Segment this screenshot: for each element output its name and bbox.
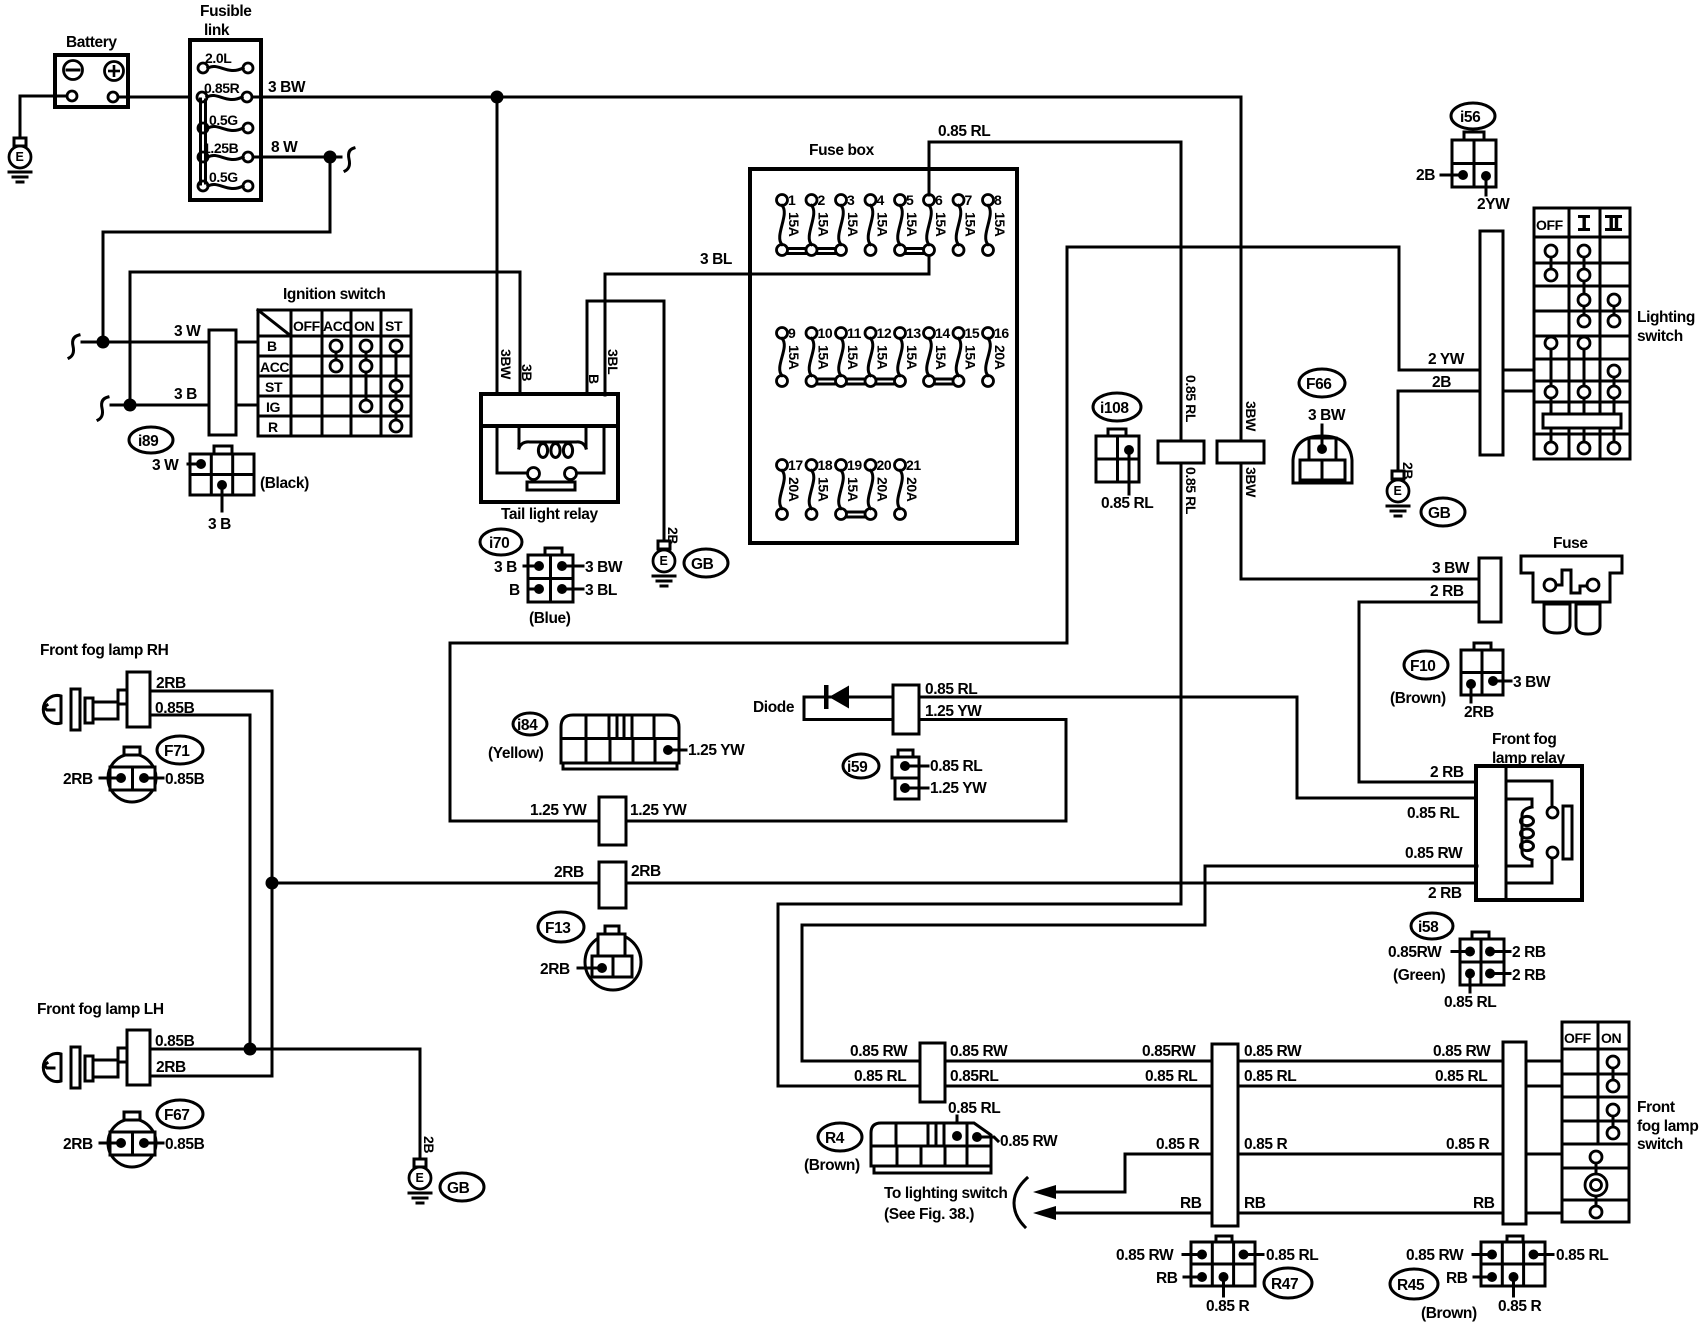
connector F67: [63, 1100, 205, 1167]
svg-text:15A: 15A: [845, 477, 861, 502]
wire 3BL into fuse box: [605, 252, 929, 395]
svg-text:3 B: 3 B: [494, 559, 517, 576]
svg-text:IG: IG: [266, 399, 280, 415]
fuse 3 (15A): [836, 192, 862, 256]
svg-text:2RB: 2RB: [540, 961, 570, 978]
svg-text:15A: 15A: [875, 345, 891, 370]
svg-text:3BW: 3BW: [498, 349, 514, 380]
svg-text:0.85 R: 0.85 R: [1206, 1298, 1249, 1315]
svg-text:2 RB: 2 RB: [1430, 764, 1464, 781]
fuse 11 (15A): [836, 325, 862, 387]
svg-text:Front fog lamp RH: Front fog lamp RH: [40, 642, 169, 659]
svg-text:11: 11: [847, 325, 862, 341]
inline connector (bus 3): [1503, 1042, 1526, 1224]
svg-text:2 RB: 2 RB: [1430, 583, 1464, 600]
svg-text:0.85 RL: 0.85 RL: [1244, 1068, 1296, 1085]
svg-text:Ignition switch: Ignition switch: [283, 286, 386, 303]
svg-text:F66: F66: [1306, 376, 1332, 393]
node 3W junction: [97, 336, 110, 349]
svg-text:14: 14: [935, 325, 950, 341]
svg-text:8 W: 8 W: [271, 139, 298, 156]
svg-text:2B: 2B: [1432, 374, 1451, 391]
svg-text:15A: 15A: [816, 477, 832, 502]
svg-text:R47: R47: [1271, 1276, 1298, 1293]
svg-text:8: 8: [994, 192, 1002, 208]
svg-text:RB: RB: [1473, 1195, 1495, 1212]
svg-text:To lighting switch: To lighting switch: [884, 1185, 1007, 1202]
wire 0.85RL vertical: [1180, 142, 1183, 904]
wire 2B lighting switch to ground: [1398, 391, 1480, 471]
ground E (tail relay): [653, 541, 675, 586]
svg-text:F67: F67: [164, 1107, 190, 1124]
wire 2RB to fuse bar: [1359, 602, 1479, 782]
svg-text:(Brown): (Brown): [1421, 1305, 1477, 1322]
fuse bus 5-6: [900, 247, 929, 250]
ignition switch: [258, 286, 411, 436]
continuation bracket 8W: [345, 148, 354, 171]
svg-text:0.85 RL: 0.85 RL: [1145, 1068, 1197, 1085]
fuse bus 14-15: [929, 378, 959, 381]
fuse 5 (15A): [895, 192, 921, 256]
svg-text:Tail light relay: Tail light relay: [501, 506, 598, 523]
svg-text:R45: R45: [1397, 1277, 1425, 1294]
wire 3BW down to tail relay: [496, 97, 499, 395]
wire 8W to ignition: [103, 157, 330, 344]
svg-text:E: E: [16, 150, 24, 164]
svg-text:3 W: 3 W: [152, 457, 179, 474]
svg-text:0.85 RW: 0.85 RW: [950, 1043, 1008, 1060]
inline connector (diode): [893, 685, 919, 734]
svg-text:6: 6: [935, 192, 943, 208]
svg-text:3 B: 3 B: [208, 516, 231, 533]
fuse bus 1-3: [782, 247, 841, 250]
svg-text:3BW: 3BW: [1243, 401, 1259, 432]
svg-text:2RB: 2RB: [1464, 704, 1494, 721]
svg-text:0.85 RW: 0.85 RW: [1000, 1133, 1058, 1150]
svg-text:12: 12: [877, 325, 892, 341]
svg-text:18: 18: [818, 457, 833, 473]
svg-text:Front fog: Front fog: [1492, 731, 1556, 748]
svg-text:2B: 2B: [1416, 167, 1435, 184]
svg-text:GB: GB: [691, 556, 714, 573]
fuse 17 (20A): [777, 457, 804, 520]
svg-text:(Brown): (Brown): [804, 1157, 860, 1174]
svg-text:0.85 RL: 0.85 RL: [1183, 467, 1199, 515]
fuse bus 19-20: [841, 511, 871, 514]
svg-text:0.85 RL: 0.85 RL: [854, 1068, 906, 1085]
fuse 12 (15A): [865, 325, 892, 387]
ignition switch connector bar: [209, 330, 236, 435]
svg-text:RB: RB: [1180, 1195, 1202, 1212]
svg-text:2: 2: [818, 192, 826, 208]
svg-text:0.85 R: 0.85 R: [1156, 1136, 1199, 1153]
fuse 9 (15A): [777, 325, 803, 387]
svg-text:3 BL: 3 BL: [700, 251, 732, 268]
svg-text:i84: i84: [517, 717, 538, 734]
svg-text:(Green): (Green): [1393, 967, 1446, 984]
wire 1.25YW loop bottom: [450, 820, 1066, 823]
svg-text:2RB: 2RB: [156, 675, 186, 692]
svg-text:15A: 15A: [904, 212, 920, 237]
node 8W junction: [324, 151, 337, 164]
lighting switch: [1534, 208, 1695, 459]
svg-text:i70: i70: [489, 535, 509, 552]
wire 0.85RL relay branch to bus: [778, 904, 1181, 1086]
svg-text:OFF: OFF: [293, 318, 321, 334]
svg-text:3: 3: [847, 192, 855, 208]
svg-text:3 BW: 3 BW: [585, 559, 623, 576]
svg-text:15A: 15A: [933, 212, 949, 237]
svg-text:2 RB: 2 RB: [1512, 967, 1546, 984]
svg-text:Fusible: Fusible: [200, 3, 252, 20]
svg-text:0.85 RL: 0.85 RL: [1556, 1247, 1608, 1264]
svg-text:2 RB: 2 RB: [1512, 944, 1546, 961]
svg-text:2RB: 2RB: [554, 864, 584, 881]
svg-text:0.85 R: 0.85 R: [1244, 1136, 1287, 1153]
connector i84: [488, 713, 745, 769]
front fog lamp RH: [40, 642, 169, 730]
arrow to lighting switch (0.85R): [1033, 1185, 1056, 1199]
wire 3BW top right down: [1241, 97, 1479, 579]
svg-text:15A: 15A: [875, 212, 891, 237]
inline connector on 3BW: [1217, 441, 1264, 463]
svg-text:0.85RW: 0.85RW: [1388, 944, 1442, 961]
svg-text:5: 5: [906, 192, 914, 208]
svg-text:2B: 2B: [421, 1136, 437, 1153]
svg-text:17: 17: [788, 457, 803, 473]
ground E (battery): [9, 138, 31, 182]
svg-text:0.85 RL: 0.85 RL: [1407, 805, 1459, 822]
front fog lamp LH: [37, 1001, 164, 1088]
svg-text:3BW: 3BW: [1243, 467, 1259, 498]
wire 2RB main: [272, 882, 1477, 885]
svg-text:3 BW: 3 BW: [1513, 674, 1551, 691]
wire bar to ignition B: [236, 341, 258, 344]
node 3B junction: [124, 399, 137, 412]
svg-text:0.85 RL: 0.85 RL: [925, 681, 977, 698]
svg-text:switch: switch: [1637, 1136, 1683, 1153]
svg-text:Front: Front: [1637, 1099, 1675, 1116]
svg-text:ST: ST: [385, 318, 403, 334]
svg-text:3 BL: 3 BL: [585, 582, 617, 599]
fusible link: [190, 3, 261, 200]
svg-text:i108: i108: [1100, 400, 1129, 417]
svg-text:15A: 15A: [786, 345, 802, 370]
svg-text:1.25 YW: 1.25 YW: [530, 802, 587, 819]
wire 2YW from loop to lighting switch: [1067, 247, 1480, 370]
inline connector (bus 1): [920, 1043, 945, 1102]
svg-text:20A: 20A: [904, 477, 920, 502]
svg-text:R4: R4: [825, 1130, 845, 1147]
svg-text:0.85RL: 0.85RL: [950, 1068, 998, 1085]
wire 1.25YW riser to diode: [919, 720, 1066, 822]
svg-text:Diode: Diode: [753, 699, 795, 716]
inline connector on 0.85RL: [1158, 441, 1204, 463]
connector F71: [63, 736, 205, 802]
ground GB badge (lighting switch): [1421, 498, 1465, 526]
svg-text:15A: 15A: [963, 212, 979, 237]
ground E (lighting switch): [1387, 471, 1409, 516]
svg-text:10: 10: [818, 325, 833, 341]
fuse 19 (15A): [836, 457, 863, 520]
svg-text:1.25 YW: 1.25 YW: [688, 742, 745, 759]
svg-text:2RB: 2RB: [63, 771, 93, 788]
svg-text:19: 19: [847, 457, 862, 473]
svg-text:0.85B: 0.85B: [165, 771, 205, 788]
svg-text:Battery: Battery: [66, 34, 117, 51]
battery: [55, 34, 128, 107]
bus 0.85RW: [802, 1060, 1562, 1063]
svg-text:0.85 R: 0.85 R: [1446, 1136, 1489, 1153]
svg-text:E: E: [1394, 484, 1402, 498]
svg-text:0.85 RW: 0.85 RW: [1406, 1247, 1464, 1264]
fuse 13 (15A): [895, 325, 922, 387]
svg-text:RB: RB: [1244, 1195, 1266, 1212]
svg-text:Front fog lamp LH: Front fog lamp LH: [37, 1001, 164, 1018]
svg-text:1: 1: [788, 192, 796, 208]
wire bar to ignition IG: [236, 404, 258, 407]
svg-text:ACC: ACC: [260, 359, 289, 375]
inline connector (bus 2): [1212, 1044, 1238, 1226]
svg-text:2RB: 2RB: [63, 1136, 93, 1153]
svg-text:fog lamp: fog lamp: [1637, 1118, 1698, 1135]
wire B to ground: [587, 301, 664, 541]
svg-text:i56: i56: [1460, 109, 1481, 126]
svg-text:E: E: [416, 1171, 424, 1185]
svg-text:ON: ON: [1601, 1030, 1621, 1046]
svg-text:2 YW: 2 YW: [1428, 351, 1465, 368]
svg-text:OFF: OFF: [1564, 1030, 1592, 1046]
wire battery to ground: [20, 96, 67, 140]
connector R45: [1390, 1236, 1608, 1322]
continuation bracket 3B: [98, 397, 108, 420]
svg-text:0.85R: 0.85R: [204, 80, 240, 96]
fuse connector bar: [1479, 558, 1501, 622]
svg-text:15A: 15A: [904, 345, 920, 370]
svg-text:2.0L: 2.0L: [205, 50, 232, 66]
svg-text:2YW: 2YW: [1477, 196, 1510, 213]
tail light relay: [481, 394, 618, 523]
wire 1.25YW loop top: [450, 247, 1067, 821]
fuse 21 (20A): [895, 457, 922, 520]
fuse 16 (20A): [983, 325, 1010, 387]
wire 0.85R: [1054, 1154, 1562, 1192]
connector i56: [1416, 103, 1510, 213]
svg-text:0.85 R: 0.85 R: [1498, 1298, 1541, 1315]
svg-text:4: 4: [877, 192, 885, 208]
connector F10: [1390, 643, 1551, 721]
svg-text:15A: 15A: [816, 212, 832, 237]
ground GB badge (tail relay): [684, 549, 728, 577]
wire battery to fusible link: [118, 96, 197, 99]
svg-text:(Black): (Black): [260, 475, 309, 492]
svg-text:(Blue): (Blue): [529, 610, 571, 627]
connector R4: [804, 1123, 1058, 1174]
fuse 1 (15A): [777, 192, 803, 256]
svg-text:ACC: ACC: [323, 318, 352, 334]
connector F66: [1293, 369, 1352, 483]
fuse (blade type): [1521, 535, 1622, 634]
svg-text:0.85 RL: 0.85 RL: [1444, 994, 1496, 1011]
svg-text:15A: 15A: [816, 345, 832, 370]
svg-text:1.25 YW: 1.25 YW: [630, 802, 687, 819]
svg-text:F71: F71: [164, 743, 190, 760]
fuse 20 (20A): [865, 457, 892, 520]
svg-text:B: B: [509, 582, 520, 599]
svg-text:3 B: 3 B: [174, 386, 197, 403]
to lighting switch note: [884, 1178, 1027, 1227]
svg-text:i58: i58: [1418, 919, 1439, 936]
fuse 10 (15A): [806, 325, 833, 387]
svg-text:0.85 RL: 0.85 RL: [930, 758, 982, 775]
svg-text:0.85 RL: 0.85 RL: [1183, 375, 1199, 423]
wire 3B up to tail relay: [130, 272, 520, 405]
fuse 15 (15A): [953, 325, 980, 387]
svg-text:3 BW: 3 BW: [268, 79, 306, 96]
svg-text:0.85 RW: 0.85 RW: [1116, 1247, 1174, 1264]
diode: [753, 685, 894, 720]
svg-text:3BL: 3BL: [605, 349, 621, 375]
svg-text:0.85B: 0.85B: [165, 1136, 205, 1153]
svg-text:0.85B: 0.85B: [155, 1033, 195, 1050]
svg-text:Lighting: Lighting: [1637, 309, 1695, 326]
svg-text:21: 21: [906, 457, 921, 473]
svg-text:15: 15: [965, 325, 980, 341]
svg-text:E: E: [660, 554, 668, 568]
svg-text:0.85 RL: 0.85 RL: [1266, 1247, 1318, 1264]
svg-text:(Brown): (Brown): [1390, 690, 1446, 707]
svg-text:0.85RW: 0.85RW: [1142, 1043, 1196, 1060]
svg-text:13: 13: [906, 325, 921, 341]
svg-text:3B: 3B: [519, 364, 535, 381]
connector i70: [480, 529, 623, 627]
svg-text:0.85 RW: 0.85 RW: [1244, 1043, 1302, 1060]
svg-text:9: 9: [788, 325, 796, 341]
svg-text:GB: GB: [1428, 505, 1451, 522]
fuse 7 (15A): [953, 192, 979, 256]
svg-text:20A: 20A: [992, 345, 1008, 370]
svg-text:2 RB: 2 RB: [1428, 885, 1462, 902]
svg-text:1.25 YW: 1.25 YW: [925, 703, 982, 720]
svg-text:0.85 RL: 0.85 RL: [1435, 1068, 1487, 1085]
svg-text:1.25 YW: 1.25 YW: [930, 780, 987, 797]
svg-text:0.85 RL: 0.85 RL: [948, 1100, 1000, 1117]
svg-text:15A: 15A: [963, 345, 979, 370]
svg-text:3 BW: 3 BW: [1432, 560, 1470, 577]
fuse 6 (15A): [924, 192, 950, 256]
svg-text:15A: 15A: [992, 212, 1008, 237]
svg-text:RB: RB: [1156, 1270, 1178, 1287]
svg-text:B: B: [586, 374, 602, 384]
svg-text:7: 7: [965, 192, 973, 208]
svg-text:ST: ST: [265, 379, 283, 395]
svg-text:0.85 RW: 0.85 RW: [1405, 845, 1463, 862]
svg-text:3 W: 3 W: [174, 323, 201, 340]
svg-text:0.85 RW: 0.85 RW: [1433, 1043, 1491, 1060]
connector i89: [129, 427, 309, 533]
node 2RB junction: [266, 877, 279, 890]
wire RB: [1054, 1212, 1562, 1215]
fuse bus 10-13: [812, 378, 901, 381]
connector R47: [1116, 1236, 1318, 1315]
svg-text:F10: F10: [1410, 658, 1436, 675]
connector i59: [843, 750, 987, 799]
svg-text:0.85 RL: 0.85 RL: [1101, 495, 1153, 512]
fuse box: [750, 142, 1017, 543]
svg-text:B: B: [267, 338, 277, 354]
svg-text:0.85 RL: 0.85 RL: [938, 123, 990, 140]
node 3BW junction: [491, 91, 504, 104]
connector i108: [1093, 393, 1153, 512]
fuse 14 (15A): [924, 325, 951, 387]
svg-text:15A: 15A: [786, 212, 802, 237]
lighting switch connector bar: [1480, 231, 1503, 455]
fuse 18 (15A): [806, 457, 833, 520]
ground E (lamps): [409, 1159, 431, 1203]
svg-text:OFF: OFF: [1536, 217, 1564, 233]
svg-text:15A: 15A: [845, 345, 861, 370]
svg-text:switch: switch: [1637, 328, 1683, 345]
svg-text:R: R: [268, 419, 278, 435]
fuse 2 (15A): [806, 192, 832, 256]
svg-text:i59: i59: [847, 759, 868, 776]
connector i58: [1388, 913, 1546, 1011]
continuation bracket 3W: [69, 335, 79, 358]
front fog lamp switch: [1562, 1022, 1698, 1222]
svg-text:15A: 15A: [933, 345, 949, 370]
svg-text:RB: RB: [1446, 1270, 1468, 1287]
wire bar to lighting switch 2B: [1503, 390, 1534, 393]
svg-text:link: link: [204, 22, 230, 39]
svg-text:0.5G: 0.5G: [209, 169, 238, 185]
svg-text:20A: 20A: [875, 477, 891, 502]
svg-text:Fuse box: Fuse box: [809, 142, 875, 159]
node 0.85B junction: [244, 1043, 257, 1056]
svg-text:2RB: 2RB: [156, 1059, 186, 1076]
svg-text:GB: GB: [447, 1180, 470, 1197]
svg-text:15A: 15A: [845, 212, 861, 237]
front fog lamp relay: [1476, 731, 1582, 900]
svg-text:(See Fig. 38.): (See Fig. 38.): [884, 1206, 974, 1223]
svg-text:(Yellow): (Yellow): [488, 745, 544, 762]
svg-text:i89: i89: [138, 433, 159, 450]
svg-text:16: 16: [994, 325, 1009, 341]
svg-text:Fuse: Fuse: [1553, 535, 1588, 552]
svg-text:F13: F13: [545, 920, 571, 937]
fuse 8 (15A): [983, 192, 1009, 256]
connector F13: [538, 912, 641, 990]
svg-text:2RB: 2RB: [631, 863, 661, 880]
svg-text:20A: 20A: [786, 477, 802, 502]
svg-text:3 BW: 3 BW: [1308, 407, 1346, 424]
fuse 4 (15A): [865, 192, 891, 256]
svg-text:ON: ON: [354, 318, 374, 334]
svg-text:0.85 RW: 0.85 RW: [850, 1043, 908, 1060]
bus 0.85RL: [778, 1085, 1562, 1088]
wire bar to lighting switch 2YW: [1503, 369, 1534, 372]
ground GB badge (lamps): [440, 1173, 484, 1201]
svg-text:20: 20: [877, 457, 892, 473]
arrow to lighting switch (RB): [1033, 1206, 1056, 1220]
